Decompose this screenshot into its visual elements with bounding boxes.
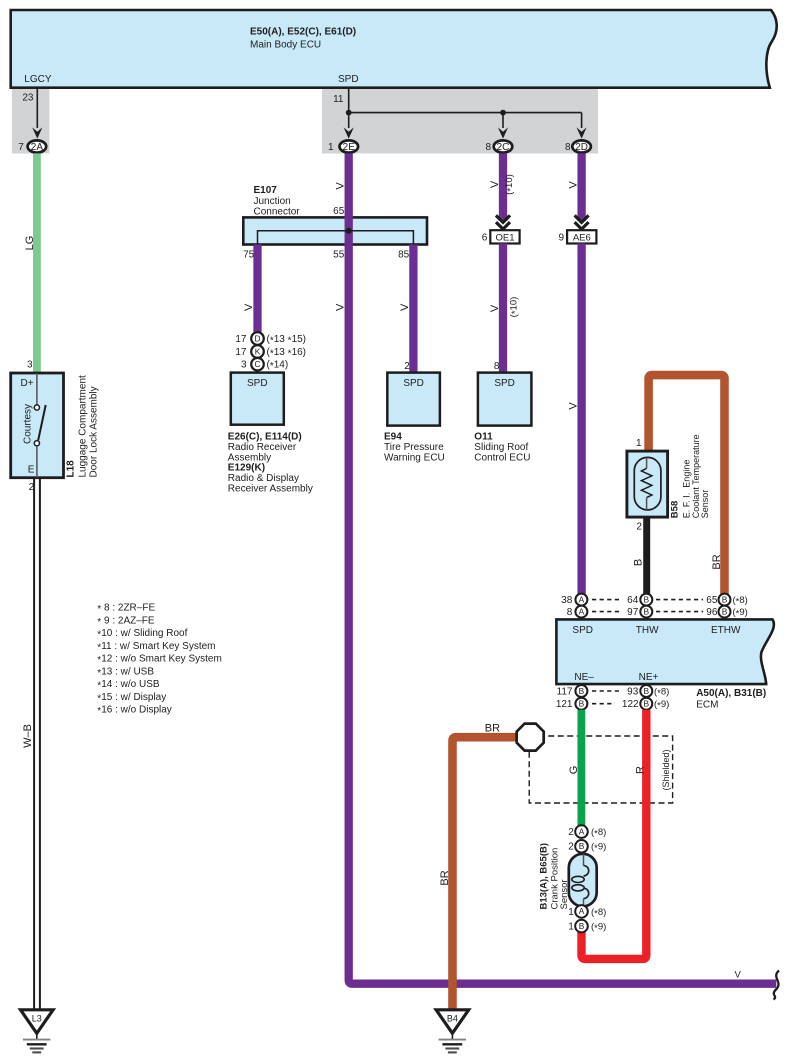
svg-text:K: K <box>255 346 261 356</box>
labels radio receiver <box>228 432 313 495</box>
connector circle K <box>235 345 306 359</box>
svg-text:*16 : w/o Display: *16 : w/o Display <box>97 705 172 718</box>
svg-text:B4: B4 <box>447 1014 458 1024</box>
svg-text:A: A <box>579 594 585 604</box>
svg-text:L18: L18 <box>66 460 77 478</box>
svg-text:R: R <box>634 766 646 774</box>
wire V purple pin 85 to E94 <box>409 245 417 373</box>
courtesy switch <box>22 373 45 478</box>
svg-text:ETHW: ETHW <box>711 625 741 636</box>
SPD box E94 <box>387 373 440 426</box>
wire V purple 2D to AE6 <box>577 153 585 221</box>
wire to 2E <box>348 113 350 128</box>
wire W-B double line <box>34 478 40 1010</box>
svg-text:(*13 *16): (*13 *16) <box>267 347 307 360</box>
wire V purple OE1 to O11 <box>499 244 507 373</box>
svg-text:V: V <box>489 180 501 188</box>
svg-text:64: 64 <box>627 595 639 606</box>
svg-text:(*9): (*9) <box>591 842 606 855</box>
chevrons into OE1 <box>496 215 510 229</box>
svg-text:121: 121 <box>556 699 573 710</box>
gray bus band left column <box>12 87 50 154</box>
svg-text:Luggage Compartment: Luggage Compartment <box>78 375 89 478</box>
svg-text:E129(K): E129(K) <box>228 463 265 474</box>
svg-text:75: 75 <box>243 249 255 260</box>
connector AE6 <box>559 230 597 243</box>
svg-text:8: 8 <box>485 142 491 153</box>
junction dot at SPD branch <box>346 110 352 116</box>
labels O11 <box>474 432 530 464</box>
svg-text:SPD: SPD <box>494 378 515 389</box>
svg-text:B: B <box>579 921 585 931</box>
connector 2C <box>485 140 512 153</box>
svg-text:B: B <box>579 699 585 709</box>
svg-text:B: B <box>579 686 585 696</box>
svg-text:(*14): (*14) <box>267 360 289 373</box>
wire B black from B58 to ECM 64/97 <box>643 517 650 594</box>
wire break squiggle <box>774 971 780 1000</box>
svg-text:1: 1 <box>568 907 574 918</box>
svg-text:ECM: ECM <box>696 700 718 711</box>
chevrons into AE6 <box>575 215 589 229</box>
svg-text:Control ECU: Control ECU <box>474 452 530 463</box>
wire G green NE- to crank sensor <box>578 710 586 826</box>
svg-text:117: 117 <box>557 686 573 697</box>
svg-text:L3: L3 <box>32 1014 42 1024</box>
svg-text:E107: E107 <box>254 185 278 196</box>
svg-text:B: B <box>644 606 650 616</box>
svg-text:*13 : w/ USB: *13 : w/ USB <box>97 666 154 679</box>
svg-text:V: V <box>735 970 742 981</box>
B58 E.F.I. Engine Coolant Temperature Sensor <box>627 451 668 517</box>
svg-text:V: V <box>567 181 579 189</box>
svg-text:NE+: NE+ <box>639 672 659 683</box>
crank pin row 1(B) <box>568 920 606 934</box>
crank position sensor B13(A), B65(B) <box>569 854 597 907</box>
svg-text:2C: 2C <box>497 142 510 153</box>
svg-text:V: V <box>243 303 255 311</box>
svg-text:(*8): (*8) <box>591 827 606 840</box>
svg-text:Junction: Junction <box>254 196 291 207</box>
svg-text:LG: LG <box>24 236 36 251</box>
svg-text:122: 122 <box>622 699 639 710</box>
ECM pin row 8(A) 97(B) 96(B) <box>567 606 748 620</box>
svg-text:3: 3 <box>27 360 33 371</box>
svg-text:D: D <box>254 333 260 343</box>
junction dot in E107 <box>346 228 352 234</box>
svg-text:Assembly: Assembly <box>228 452 271 463</box>
ECM pin row 38(A) 64(B) 65(B) <box>561 594 748 608</box>
svg-text:93: 93 <box>627 686 639 697</box>
shield octagon <box>517 724 544 751</box>
SPD box radio receiver <box>231 373 284 425</box>
svg-text:*10 : w/ Sliding Roof: *10 : w/ Sliding Roof <box>97 628 187 641</box>
horizontal bus wire <box>349 112 582 114</box>
svg-text:NE–: NE– <box>574 672 594 683</box>
connector circle C <box>241 358 288 372</box>
svg-text:B: B <box>644 594 650 604</box>
svg-text:2: 2 <box>568 842 574 853</box>
svg-text:AE6: AE6 <box>573 233 591 244</box>
svg-text:(*8): (*8) <box>591 907 606 920</box>
arrow into 2C <box>498 127 508 138</box>
svg-text:2A: 2A <box>31 142 44 153</box>
svg-text:Receiver Assembly: Receiver Assembly <box>228 483 313 494</box>
svg-text:W–B: W–B <box>22 724 34 748</box>
svg-text:V: V <box>334 182 346 190</box>
svg-text:17: 17 <box>235 347 247 358</box>
svg-text:B: B <box>644 686 650 696</box>
svg-text:85: 85 <box>398 249 410 260</box>
svg-text:2D: 2D <box>575 142 588 153</box>
wire BR brown from ECM 65/96 to B58 <box>649 375 725 594</box>
svg-text:B: B <box>722 594 728 604</box>
svg-text:11: 11 <box>333 94 344 105</box>
svg-text:Courtesy: Courtesy <box>22 404 33 444</box>
wire BR brown from shield octagon to B4 ground <box>453 737 517 1009</box>
wire R red NE+ to crank sensor <box>582 710 647 959</box>
svg-text:A: A <box>579 906 585 916</box>
svg-text:23: 23 <box>22 93 34 104</box>
svg-text:O11: O11 <box>474 432 493 443</box>
notes list <box>97 603 222 718</box>
crank pin row 2(B) <box>568 840 606 854</box>
svg-text:2: 2 <box>404 361 410 372</box>
svg-text:*11 : w/ Smart Key System: *11 : w/ Smart Key System <box>97 641 215 654</box>
svg-text:(*10): (*10) <box>509 297 522 318</box>
labels E94 <box>384 432 445 464</box>
svg-text:38: 38 <box>561 595 573 606</box>
wire V purple 2C to OE1 <box>499 153 507 221</box>
svg-text:(*9): (*9) <box>654 699 669 712</box>
svg-text:Sensor: Sensor <box>559 879 570 909</box>
svg-text:D+: D+ <box>21 378 34 389</box>
svg-text:* 9 : 2AZ–FE: * 9 : 2AZ–FE <box>97 615 155 628</box>
ECM box A50(A), B31(B) <box>556 619 774 684</box>
L18 Luggage Compartment Door Lock Assembly box <box>11 373 64 478</box>
svg-text:E: E <box>28 464 35 475</box>
svg-text:(*9): (*9) <box>591 922 606 935</box>
svg-text:8: 8 <box>565 142 571 153</box>
svg-text:(Shielded): (Shielded) <box>661 749 671 790</box>
svg-text:55: 55 <box>333 249 345 260</box>
ECM pin row 121(B) 122(B) <box>556 698 670 712</box>
junction dot at 2C branch <box>500 110 506 116</box>
svg-text:V: V <box>334 303 346 311</box>
svg-text:*12 : w/o Smart Key System: *12 : w/o Smart Key System <box>97 654 222 667</box>
svg-text:2: 2 <box>568 827 574 838</box>
svg-text:SPD: SPD <box>338 74 359 85</box>
svg-text:V: V <box>567 402 579 410</box>
wire LG green from 2A to L18 <box>33 153 41 373</box>
svg-text:BR: BR <box>439 870 451 885</box>
svg-text:8: 8 <box>494 361 500 372</box>
svg-text:B: B <box>579 841 585 851</box>
svg-text:96: 96 <box>706 607 718 618</box>
svg-text:B13(A), B65(B): B13(A), B65(B) <box>539 843 550 910</box>
arrow into 2A <box>32 127 42 138</box>
svg-text:6: 6 <box>482 233 488 244</box>
connector 2A <box>18 140 46 153</box>
svg-text:1: 1 <box>568 922 574 933</box>
svg-text:V: V <box>489 304 501 312</box>
svg-text:65: 65 <box>333 206 345 217</box>
arrow into 2D <box>577 127 587 138</box>
svg-text:9: 9 <box>559 233 565 244</box>
svg-text:*15 : w/ Display: *15 : w/ Display <box>97 692 166 705</box>
wire V purple main trunk 2E to bottom and right <box>349 153 777 983</box>
wire from LGCY pin 23 <box>36 88 38 128</box>
svg-text:SPD: SPD <box>403 378 424 389</box>
svg-text:SPD: SPD <box>572 625 593 636</box>
connector OE1 <box>482 230 520 243</box>
connector circle D <box>235 332 306 346</box>
crank pin row 2(A) <box>568 825 606 839</box>
svg-text:7: 7 <box>18 142 24 153</box>
svg-text:2: 2 <box>636 522 642 533</box>
wire to 2D <box>581 113 583 128</box>
svg-text:Main Body ECU: Main Body ECU <box>250 40 321 51</box>
svg-text:Connector: Connector <box>254 207 301 218</box>
E107 busbar <box>258 231 414 245</box>
connector 2D <box>565 140 591 153</box>
svg-text:(*8): (*8) <box>733 595 748 608</box>
svg-text:LGCY: LGCY <box>24 74 52 85</box>
svg-text:BR: BR <box>485 723 500 735</box>
svg-text:A: A <box>579 606 585 616</box>
connector 2E <box>328 140 358 153</box>
svg-text:A: A <box>579 826 585 836</box>
svg-text:(*9): (*9) <box>733 607 748 620</box>
svg-text:97: 97 <box>627 607 639 618</box>
svg-text:(*10): (*10) <box>504 174 517 195</box>
svg-text:Sensor: Sensor <box>700 490 710 519</box>
svg-text:BR: BR <box>711 554 723 569</box>
svg-text:1: 1 <box>328 142 334 153</box>
svg-text:2E: 2E <box>343 142 356 153</box>
svg-text:B: B <box>644 699 650 709</box>
svg-text:E50(A), E52(C), E61(D): E50(A), E52(C), E61(D) <box>250 27 356 38</box>
crank pin row 1(A) <box>568 905 606 919</box>
svg-text:(*8): (*8) <box>654 686 669 699</box>
svg-text:V: V <box>399 303 411 311</box>
arrow into 2E <box>344 127 354 138</box>
wire V purple pin 75 to circle stack <box>253 245 261 333</box>
svg-text:SPD: SPD <box>247 378 268 389</box>
svg-text:THW: THW <box>636 625 659 636</box>
svg-text:Door Lock Assembly: Door Lock Assembly <box>89 386 100 477</box>
svg-text:8: 8 <box>567 607 573 618</box>
SPD box O11 <box>478 373 532 426</box>
svg-text:A50(A), B31(B): A50(A), B31(B) <box>696 688 766 699</box>
wire V purple AE6 to ECM <box>577 244 585 594</box>
ground B4 <box>436 1010 469 1053</box>
wire to 2C <box>502 113 504 128</box>
svg-text:B58: B58 <box>670 501 681 518</box>
svg-text:Warning ECU: Warning ECU <box>384 452 445 463</box>
svg-text:*14 : w/o USB: *14 : w/o USB <box>97 679 160 692</box>
ECM pin row 117(B) 93(B) <box>557 685 670 699</box>
svg-text:C: C <box>254 359 260 369</box>
shield dashed box <box>529 736 672 803</box>
gray bus band center <box>322 87 598 154</box>
svg-text:G: G <box>568 766 580 775</box>
ground L3 <box>21 1010 54 1053</box>
Main Body ECU box E50(A), E52(C), E61(D) <box>11 10 777 88</box>
svg-text:3: 3 <box>241 360 247 371</box>
wire SPD pin 11 down <box>348 88 350 113</box>
svg-text:17: 17 <box>235 334 247 345</box>
svg-text:OE1: OE1 <box>495 233 514 244</box>
svg-text:65: 65 <box>706 595 718 606</box>
svg-text:B: B <box>632 559 644 566</box>
svg-text:(*13 *15): (*13 *15) <box>267 334 307 347</box>
svg-text:1: 1 <box>636 438 642 449</box>
svg-text:E26(C), E114(D): E26(C), E114(D) <box>228 432 302 443</box>
svg-text:E94: E94 <box>384 432 402 443</box>
svg-text:* 8 : 2ZR–FE: * 8 : 2ZR–FE <box>97 603 155 616</box>
svg-text:B: B <box>722 606 728 616</box>
E107 Junction Connector box <box>243 185 427 245</box>
